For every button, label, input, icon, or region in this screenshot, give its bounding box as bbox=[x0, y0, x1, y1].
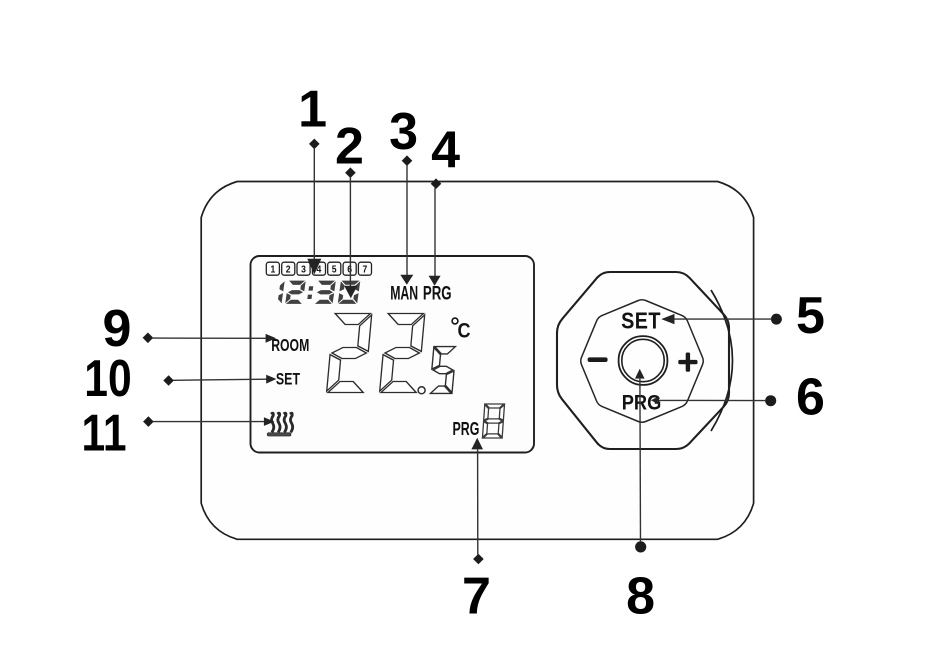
callout 3 leader line bbox=[400, 155, 413, 284]
heating flame icon bbox=[267, 413, 292, 436]
callout 10 leader line bbox=[163, 375, 276, 386]
callout 11 leader line bbox=[143, 416, 274, 427]
svg-text:3: 3 bbox=[301, 264, 306, 276]
svg-text:11: 11 bbox=[81, 405, 126, 463]
clock digit 1 bbox=[277, 281, 284, 303]
svg-text:2: 2 bbox=[335, 117, 364, 175]
svg-text:PRG: PRG bbox=[622, 391, 662, 415]
svg-text:5: 5 bbox=[796, 287, 825, 345]
svg-text:ROOM: ROOM bbox=[271, 336, 309, 356]
svg-text:SET: SET bbox=[621, 308, 661, 334]
clock digit 2 bbox=[285, 281, 306, 304]
svg-text:1: 1 bbox=[298, 81, 327, 139]
LCD display panel bbox=[251, 256, 535, 453]
callout 4 leader line bbox=[429, 178, 442, 285]
svg-text:PRG: PRG bbox=[453, 420, 480, 440]
callout 5 leader line bbox=[661, 314, 782, 325]
plus button bbox=[678, 353, 697, 372]
clock digit 0 bbox=[338, 281, 361, 304]
callout 8 leader line bbox=[635, 369, 646, 553]
callout 9 leader line bbox=[143, 333, 277, 344]
day box 4 bbox=[312, 262, 325, 276]
svg-text:7: 7 bbox=[462, 568, 491, 626]
day box 6 bbox=[343, 262, 356, 276]
svg-text:6: 6 bbox=[796, 369, 825, 427]
svg-text:1: 1 bbox=[270, 264, 275, 276]
center button outer ring bbox=[619, 336, 668, 385]
button pad outer octagon bbox=[557, 272, 729, 449]
day box 2 bbox=[282, 262, 295, 276]
svg-text:MAN: MAN bbox=[390, 283, 418, 305]
callout 2 leader line bbox=[344, 167, 357, 298]
svg-text:5: 5 bbox=[332, 264, 337, 276]
minus button bbox=[588, 357, 608, 362]
center button inner ring bbox=[622, 339, 664, 381]
clock colon bbox=[307, 286, 313, 299]
button pad inner octagon bbox=[581, 300, 704, 423]
thermostat body outline bbox=[201, 182, 753, 540]
degree symbol bbox=[452, 318, 458, 324]
svg-text:2: 2 bbox=[286, 264, 291, 276]
callout 1 leader line bbox=[307, 139, 321, 275]
button pad right highlight arc bbox=[711, 290, 733, 431]
callout 7 leader line bbox=[471, 438, 483, 565]
svg-text:C: C bbox=[458, 319, 471, 343]
svg-text:4: 4 bbox=[431, 122, 460, 180]
svg-text:SET: SET bbox=[276, 371, 300, 389]
temperature digit 2 (units) bbox=[380, 314, 425, 393]
program number 8 digit bbox=[482, 404, 504, 438]
svg-text:7: 7 bbox=[363, 264, 368, 276]
clock digit 3 bbox=[315, 281, 336, 304]
day box 1 bbox=[266, 262, 279, 276]
svg-text:PRG: PRG bbox=[423, 282, 452, 304]
day box 7 bbox=[358, 262, 371, 276]
svg-text:10: 10 bbox=[84, 350, 131, 408]
temperature digit 2 (tens) bbox=[327, 314, 372, 393]
day box 3 bbox=[297, 262, 310, 276]
svg-text:8: 8 bbox=[626, 568, 655, 626]
temperature digit 5 (decimal) bbox=[430, 347, 457, 394]
day box 5 bbox=[328, 262, 341, 276]
temperature decimal point bbox=[418, 387, 425, 394]
callout 6 leader line bbox=[651, 395, 776, 406]
svg-text:6: 6 bbox=[347, 264, 352, 276]
svg-text:3: 3 bbox=[389, 103, 418, 161]
